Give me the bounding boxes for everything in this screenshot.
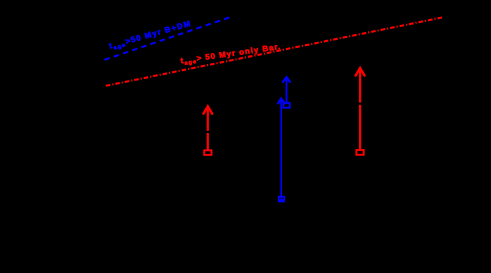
- lower-limit arrow (red, left): shaft: [207, 107, 209, 151]
- short lower-limit arrow (blue, upper): shaft: [286, 79, 288, 104]
- short lower-limit arrow (blue, upper): head: [283, 77, 290, 82]
- lower-limit arrow (red, right): head: [356, 68, 365, 76]
- long lower-limit arrow (blue): shaft: [280, 100, 282, 196]
- black cap crossing right red shaft: [358, 103, 361, 105]
- filled square marker (blue): [278, 196, 285, 203]
- lower-limit arrow (red, right): shaft: [359, 69, 361, 151]
- open square marker (blue, upper): [283, 103, 289, 108]
- black cap crossing left red shaft: [206, 131, 209, 133]
- open square marker (red, left): [204, 150, 211, 155]
- open square marker (red, right): [356, 150, 363, 155]
- red dash-dot model line only Bar: [106, 18, 442, 86]
- lower-limit arrow (red, left): head: [203, 106, 212, 113]
- blue dashed model line B+DM: [105, 18, 230, 60]
- long lower-limit arrow (blue): head: [278, 99, 284, 104]
- dark notches inside blue square: [280, 198, 281, 200]
